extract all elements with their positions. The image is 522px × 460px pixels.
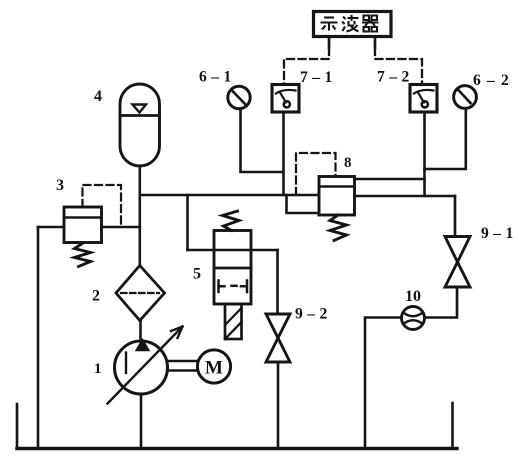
wire flow meter to left drop xyxy=(365,318,402,449)
svg-text:5: 5 xyxy=(193,266,201,283)
relief valve 8 xyxy=(319,177,355,216)
tank line xyxy=(17,447,457,450)
svg-text:2: 2 xyxy=(92,288,100,305)
sensor 7-2 xyxy=(410,85,437,113)
wire oscilloscope left stub xyxy=(328,37,331,49)
wire valve 3 right port xyxy=(102,226,140,229)
波 xyxy=(343,17,346,20)
spring of valve 3 xyxy=(75,243,91,267)
wire main line A xyxy=(140,194,319,197)
器 xyxy=(364,16,370,21)
directional valve 5 xyxy=(214,231,251,305)
wire valve 5 right link down xyxy=(276,250,279,314)
filter 2 xyxy=(116,266,165,321)
wire sensor 7-2 down xyxy=(423,112,426,196)
wire valve 9-2 to tank xyxy=(277,362,280,448)
spring of valve 8 xyxy=(330,215,347,241)
svg-text:6 – 2: 6 – 2 xyxy=(473,72,510,89)
svg-text:8: 8 xyxy=(344,155,352,171)
wire valve 8 right port upper xyxy=(355,178,425,181)
svg-text:10: 10 xyxy=(405,288,421,305)
wire sensor 7-1 down xyxy=(282,112,285,195)
svg-text:1: 1 xyxy=(94,361,102,377)
wire pump to tank xyxy=(140,394,143,448)
svg-text:9 – 2: 9 – 2 xyxy=(295,306,328,323)
wire valve 5 port line xyxy=(188,249,278,252)
sensor 7-1 xyxy=(272,85,299,113)
throttle valve 9-2 xyxy=(266,314,290,362)
wire filter to pump xyxy=(139,321,142,342)
wire gauge 6-2 to node xyxy=(425,109,466,170)
svg-text:7 – 1: 7 – 1 xyxy=(300,69,333,86)
wire valve 8 inlet loop xyxy=(287,195,320,213)
gauge 6-1 xyxy=(228,86,250,108)
motor M xyxy=(197,350,230,383)
drain stub left xyxy=(16,404,19,448)
gauge 6-2 xyxy=(454,86,477,109)
spring of valve 5 xyxy=(223,211,240,231)
accumulator 4 xyxy=(120,84,160,166)
variable arrow of pump 1 xyxy=(108,327,183,404)
wire oscilloscope right stub xyxy=(374,37,377,49)
flow meter 10 xyxy=(402,307,425,330)
wire dashed link to sensor 7-1 xyxy=(284,48,329,84)
svg-text:M: M xyxy=(205,358,223,379)
oscilloscope label 示波器 (drawn strokes) xyxy=(321,15,379,32)
drain stub right xyxy=(451,403,454,448)
throttle valve 9-1 xyxy=(445,237,470,288)
wire right drop to 9-1 xyxy=(454,196,457,236)
示 xyxy=(324,16,334,18)
svg-text:6 – 1: 6 – 1 xyxy=(199,69,232,86)
dashed pilot of valve 3 xyxy=(83,185,122,226)
relief valve 3 xyxy=(64,207,102,243)
oscilloscope box xyxy=(314,12,392,37)
svg-text:9 – 1: 9 – 1 xyxy=(481,225,514,242)
svg-text:3: 3 xyxy=(56,177,64,194)
wire valve 3 left port xyxy=(38,226,64,229)
svg-text:7 – 2: 7 – 2 xyxy=(377,69,410,86)
wire left drain down xyxy=(37,227,40,448)
pump 1 xyxy=(115,340,168,395)
wire valve 8 right port lower xyxy=(355,195,456,198)
wire accumulator stem xyxy=(139,166,142,266)
wire valve 5 left link xyxy=(186,195,189,250)
motor shaft xyxy=(168,361,198,371)
actuator stem of valve 5 (hatched) xyxy=(225,304,242,339)
svg-text:4: 4 xyxy=(94,88,102,105)
wire valve 9-1 down xyxy=(425,287,458,318)
wire dashed link to sensor 7-2 xyxy=(375,48,422,84)
wire gauge 6-1 to node xyxy=(241,109,284,172)
dashed pilot of valve 8 xyxy=(296,153,336,195)
